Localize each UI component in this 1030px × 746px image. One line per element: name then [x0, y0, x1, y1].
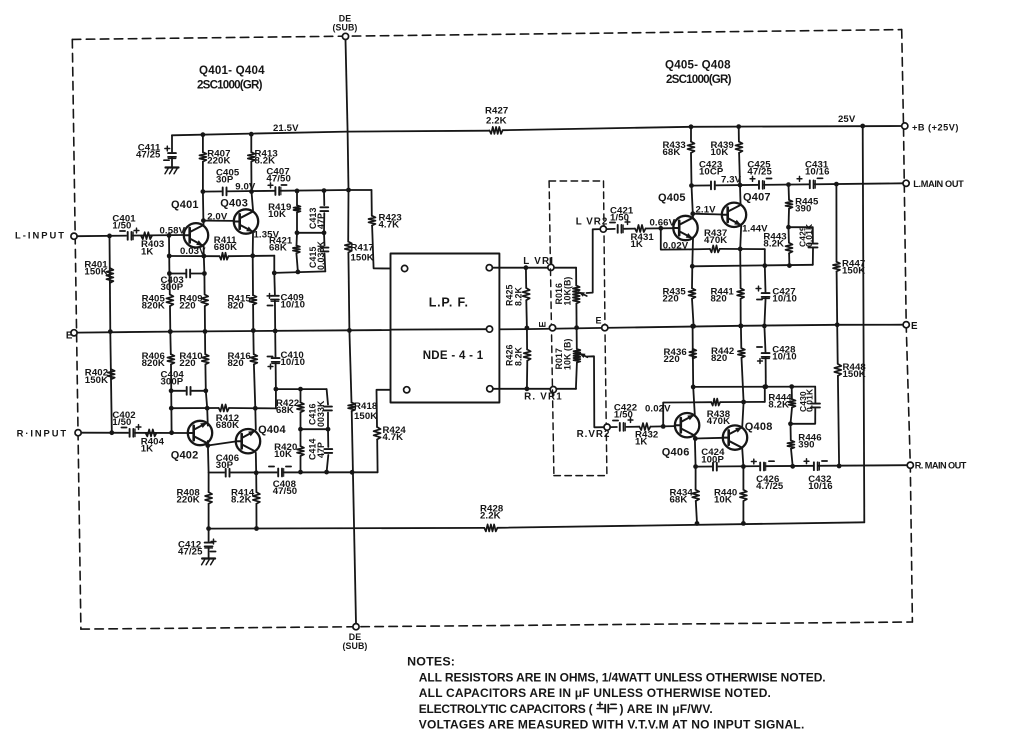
wire C414 to bus1' [327, 455, 329, 472]
junction R428 line/R440 [741, 521, 746, 526]
transistor Q408 [723, 425, 747, 449]
wire R438 line [690, 401, 711, 403]
capacitor C412 [204, 542, 214, 547]
junction L.MAIN/R445 [786, 182, 791, 187]
wire R419 to bus2 [296, 212, 298, 232]
svg-text:R·INPUT: R·INPUT [17, 428, 68, 439]
wire 0.03V line right [229, 255, 275, 258]
junction C428/387 line [763, 384, 768, 389]
resistor R436 [689, 349, 696, 359]
wire C404 line [171, 390, 206, 392]
svg-text:220: 220 [663, 294, 679, 305]
wire vA upper [109, 236, 112, 332]
wire R405 to E [169, 306, 171, 332]
svg-text:8.2K: 8.2K [514, 286, 524, 306]
wire DE(SUB) vertical upper [346, 40, 349, 242]
resistor R413 [248, 152, 255, 161]
junction bus1'/R420 [298, 470, 303, 475]
capacitor C422 [619, 422, 624, 432]
svg-text:E: E [66, 331, 73, 342]
wire +B feed down to R428 line [863, 126, 865, 522]
wire E to R416 [252, 331, 254, 355]
terminal E right [903, 322, 909, 328]
svg-text:68K: 68K [670, 495, 688, 506]
resistor R435 [689, 288, 696, 299]
resistor R408 [205, 492, 212, 504]
wire R423 to LPF input [372, 226, 401, 269]
wire R441 to E [740, 299, 742, 326]
svg-text:0.01K: 0.01K [804, 223, 814, 247]
svg-text:8.2K: 8.2K [255, 156, 276, 167]
svg-text:8.2K: 8.2K [763, 239, 784, 250]
junction bus2'/R420 [298, 427, 303, 432]
terminal LPF right mid [486, 326, 492, 332]
svg-text:0033K: 0033K [316, 400, 326, 427]
wire bus2 to R421 [296, 233, 299, 246]
wire 2.0V line Q401->Q403 base [203, 220, 234, 222]
junction R445/R443/C429 [786, 225, 791, 230]
dashed box around VR terminals [549, 180, 603, 182]
capacitor C403 [186, 269, 191, 279]
wire to Q402 emitter [206, 408, 209, 425]
svg-text:4.7K: 4.7K [383, 432, 404, 443]
junction vC/C404 [203, 388, 208, 393]
junction 0.02V/Q407 emitter [738, 247, 743, 252]
terminal on R VR1 line [550, 387, 556, 393]
svg-text:ALL CAPACITORS ARE IN μF UNLES: ALL CAPACITORS ARE IN μF UNLESS OTHERWIS… [419, 686, 771, 700]
svg-text:1K: 1K [141, 246, 153, 257]
svg-text:VOLTAGES ARE MEASURED WITH V.T: VOLTAGES ARE MEASURED WITH V.T.V.M AT NO… [419, 718, 805, 732]
capacitor C410 [271, 357, 281, 362]
resistor R438 [711, 399, 720, 406]
svg-text:30P: 30P [216, 175, 234, 186]
resistor R424 [374, 427, 381, 440]
resistor R405 [166, 295, 173, 307]
svg-text:2SC1000(GR): 2SC1000(GR) [666, 73, 732, 86]
wire E rail [77, 325, 903, 333]
wire bus1 9.0V line [203, 190, 372, 192]
junction vB/E rail [168, 329, 173, 334]
wire base junction up to R438 line [663, 402, 690, 426]
svg-text:47/50: 47/50 [273, 486, 298, 497]
wire to C412 [208, 529, 210, 542]
svg-text:Q404: Q404 [258, 424, 286, 436]
junction rail/+B feed [860, 124, 865, 129]
capacitor C432 [813, 461, 818, 471]
svg-text:10/16: 10/16 [808, 481, 833, 492]
wire emitter bypass line bottom [693, 386, 815, 388]
svg-text:) ARE IN μF/WV.: ) ARE IN μF/WV. [620, 702, 713, 716]
junction R408/R428 line/C412 [206, 526, 211, 531]
junction L VR1/R425 [524, 265, 529, 270]
wire to Q403 collector [252, 192, 254, 210]
wire R433 to L.MAIN line [690, 153, 693, 186]
resistor R433 [688, 142, 695, 153]
potentiometer R016 [573, 286, 580, 304]
svg-text:8.2K: 8.2K [231, 495, 252, 506]
resistor R411 [220, 253, 229, 260]
wire R444 to node [791, 408, 793, 424]
transistor Q405 [673, 216, 697, 240]
svg-text:150K: 150K [843, 369, 866, 380]
wire R424 to LPF input [377, 390, 404, 427]
wire bus1 to Q401 collector [202, 192, 205, 226]
wire 0.03V line left [169, 255, 219, 257]
wire R434 to R428 line [696, 501, 697, 523]
svg-text:10K: 10K [268, 209, 286, 220]
svg-text:300P: 300P [161, 282, 184, 293]
terminal E on dashed box right [602, 325, 608, 331]
wire R.MAIN OUT line [696, 465, 908, 466]
svg-text:8.2K: 8.2K [768, 400, 789, 411]
wire L.MAIN OUT line [692, 183, 904, 185]
wire R431 to Q405 base [646, 227, 674, 229]
resistor R420 [297, 446, 304, 456]
wire 266 line to C427 [764, 266, 767, 292]
wire bus2' [301, 428, 329, 430]
junction 266 line/R443 [787, 263, 792, 268]
svg-text:220: 220 [179, 358, 195, 369]
junction R VR1/R426 [525, 386, 530, 391]
junction vB/C404 [169, 388, 174, 393]
junction 387 line/R444 [789, 384, 794, 389]
wire Q404 collector to bus1'/R414 [255, 453, 258, 492]
svg-text:Q403: Q403 [220, 198, 248, 210]
junction vB/C403 [167, 271, 172, 276]
junction bus2/R419 [295, 230, 300, 235]
resistor R412 [219, 405, 229, 412]
wire E rail to R418 [349, 330, 351, 402]
capacitor C423 [710, 181, 715, 191]
capacitor C407 [275, 186, 280, 196]
resistor R409 [201, 295, 208, 307]
resistor R418 [348, 403, 355, 412]
wire Q403 emitter down [252, 233, 254, 256]
svg-text:(SUB): (SUB) [343, 641, 368, 651]
svg-text:R. VR1: R. VR1 [524, 392, 563, 403]
capacitor C402 [129, 428, 134, 438]
junction bus1/R417-DE [346, 188, 351, 193]
wire C430 to 387 line [814, 387, 816, 403]
wire bus1' corner up to R424 [376, 440, 378, 473]
svg-text:68K: 68K [269, 243, 287, 254]
svg-text:0.02V: 0.02V [663, 241, 689, 252]
wire Q406 emitter up to R436 [693, 349, 695, 415]
junction R442/E [739, 324, 744, 329]
svg-text:Q406: Q406 [662, 447, 690, 459]
resistor R407 [199, 152, 206, 161]
wire Q407 emitter down through 0.02V [740, 225, 741, 288]
wire R418 to bottom DE(SUB) [352, 411, 356, 623]
capacitor C416 [323, 406, 333, 411]
svg-text:0.66V: 0.66V [650, 217, 676, 228]
wire bus3 [274, 271, 325, 273]
svg-text:150K: 150K [351, 252, 374, 263]
wire R448 to R.MAIN [838, 376, 839, 466]
svg-text:10K: 10K [714, 495, 732, 506]
junction rail/R433 [689, 124, 694, 129]
svg-text:680K: 680K [216, 420, 239, 431]
wire R416 to R412 line [254, 364, 255, 408]
capacitor C430 [810, 403, 821, 408]
resistor R448 [834, 364, 841, 376]
terminal L.VR2 [600, 226, 606, 232]
svg-text:680K: 680K [214, 242, 237, 253]
svg-text:L.P. F.: L.P. F. [429, 296, 469, 310]
svg-text:47P: 47P [316, 442, 326, 458]
resistor R431 [635, 225, 646, 232]
wire R425 to E [525, 300, 528, 328]
svg-text:300P: 300P [161, 377, 184, 388]
wire C429 top branch [789, 227, 813, 243]
wire rail to R439 [738, 127, 740, 142]
wire Q402 collector to Q404 base [208, 441, 236, 445]
svg-text:2.0V: 2.0V [207, 212, 228, 223]
junction bus3/R421 [296, 270, 301, 275]
svg-text:10K: 10K [274, 449, 292, 460]
junction Q405 base/feedback [658, 226, 663, 231]
wire R439 to L.MAIN line [738, 153, 741, 185]
wire 387 line to R444 [791, 387, 793, 400]
wire C428 to 387 line [765, 358, 767, 387]
svg-text:150K: 150K [354, 411, 377, 422]
junction rail/R407 [201, 132, 206, 137]
wire R447 to E [836, 271, 839, 324]
wire R426 to R VR1 [526, 361, 528, 389]
svg-text:2.2K: 2.2K [480, 511, 501, 522]
capacitor C428 [761, 352, 771, 357]
terminal L-INPUT [71, 233, 77, 239]
wire E to R410 [204, 331, 206, 354]
junction vB/R412 line [169, 406, 174, 411]
junction Q401 collector / Q403 base tee [201, 218, 206, 223]
wire R406 to R-INPUT line [170, 364, 173, 432]
svg-text:0.01K: 0.01K [804, 388, 814, 412]
resistor R446 [787, 440, 794, 448]
wire C429 to 266 line [812, 248, 814, 265]
svg-text:68K: 68K [663, 147, 681, 158]
junction C409/E rail [273, 329, 278, 334]
junction vC/0.03V line [201, 254, 206, 259]
wire emitter bypass line [692, 265, 813, 267]
svg-text:10/10: 10/10 [281, 300, 306, 311]
svg-text:820: 820 [228, 358, 244, 369]
wire E to R017 [576, 328, 578, 349]
junction bus1'/R418-DE [350, 470, 355, 475]
wire L.VR2 to C421 [606, 228, 614, 230]
resistor R410 [202, 354, 209, 364]
transistor Q401 [184, 223, 208, 247]
wire C421 to R431 [624, 228, 635, 230]
wire Q406 collector to Q408 base [695, 437, 723, 440]
junction R428 line/R434 [695, 521, 700, 526]
capacitor C408 [277, 468, 282, 478]
svg-text:L VR2: L VR2 [576, 217, 609, 228]
wire C413 to bus2 [323, 213, 325, 233]
svg-text:4.7K: 4.7K [379, 220, 400, 231]
capacitor C411 [167, 152, 177, 157]
svg-text:150K: 150K [84, 267, 107, 278]
wire R417 to E rail [348, 253, 349, 331]
resistor R403 [141, 232, 152, 239]
terminal R.VR2 [604, 424, 610, 430]
capacitor C421 [617, 224, 622, 234]
wire 2.1V line Q405->Q407 base [693, 213, 722, 216]
wire Q408 collector down to R440 [742, 448, 743, 490]
wire vB to R405 [168, 235, 171, 294]
wire R435 to E [692, 299, 694, 326]
svg-text:E: E [911, 321, 918, 332]
terminal E left [71, 330, 77, 336]
capacitor C409 [270, 295, 280, 300]
svg-text:100P: 100P [701, 454, 724, 465]
transistor Q407 [722, 203, 746, 227]
wire rail to R413 [250, 134, 252, 152]
wire R415 to E [252, 305, 254, 331]
junction R-INPUT/vA [109, 430, 114, 435]
wire base junction down to 0.02V line [661, 228, 690, 249]
svg-text:L.MAIN OUT: L.MAIN OUT [913, 179, 964, 189]
junction R438 line/Q408 emitter [741, 400, 746, 405]
svg-text:2SC1000(GR): 2SC1000(GR) [197, 79, 263, 92]
svg-text:150K: 150K [842, 266, 865, 277]
junction vC/C403 [202, 271, 207, 276]
wire E to C410 [274, 331, 276, 357]
wire R017 to R VR1 [576, 363, 577, 389]
junction C427/E [762, 324, 767, 329]
junction R425/E [525, 326, 530, 331]
junction bus1/C413 [322, 188, 327, 193]
svg-text:R. MAIN OUT: R. MAIN OUT [915, 460, 967, 470]
wire R414 to R428 line [255, 504, 257, 529]
wire bus1 corner down to R423 [371, 190, 373, 216]
wire Q406 collector down to R434 [694, 436, 697, 490]
junction R.MAIN/Q406 collector [693, 464, 698, 469]
wire node to R446 [790, 424, 792, 441]
wire R409 to E [204, 306, 206, 331]
svg-text:R.VR2: R.VR2 [577, 429, 611, 440]
wire R017 wiper to R.VR2 [587, 356, 604, 427]
wire C409 to E [274, 301, 276, 331]
svg-text:25V: 25V [838, 114, 856, 125]
wire +B rail left [172, 131, 490, 136]
junction R.MAIN/Q408 collector [741, 464, 746, 469]
svg-text:9.0V: 9.0V [235, 181, 256, 192]
resistor R432 [639, 423, 650, 430]
svg-text:Q405: Q405 [658, 192, 686, 204]
wire corner to bus3 [273, 256, 275, 273]
svg-text:Q408: Q408 [745, 421, 773, 433]
terminal LPF right bottom [487, 386, 493, 392]
svg-text:220: 220 [179, 300, 195, 311]
svg-text:ELECTROLYTIC CAPACITORS (: ELECTROLYTIC CAPACITORS ( [419, 702, 593, 716]
wire R445 to node [788, 209, 791, 228]
resistor R428 [484, 524, 497, 531]
svg-text:30P: 30P [216, 460, 234, 471]
junction bus1 left end [201, 189, 206, 194]
resistor R447 [833, 262, 840, 272]
terminal R.MAIN OUT [907, 462, 913, 468]
wire L VR1 to R425 [525, 268, 527, 288]
transistor Q404 [236, 429, 260, 453]
resistor R404 [146, 429, 157, 436]
wire L.MAIN to R447 [835, 184, 837, 262]
junction R444/R446/C430 [788, 421, 793, 426]
junction Q406 emitter/387 line [691, 385, 696, 390]
junction L-INPUT/feedback node [167, 233, 172, 238]
wire rail to R407 [202, 135, 204, 153]
svg-text:390: 390 [795, 204, 811, 215]
transistor Q403 [234, 209, 258, 233]
wire R408 to R428 line [208, 504, 210, 529]
svg-text:4.7/25: 4.7/25 [756, 481, 784, 492]
wire L-INPUT line [77, 235, 184, 236]
resistor R401 [106, 268, 113, 283]
terminal E on dashed box left [549, 325, 555, 331]
resistor R426 [524, 350, 531, 361]
junction bus3'/R422 [298, 387, 303, 392]
ground below C412 [202, 557, 215, 559]
svg-text:(SUB): (SUB) [333, 23, 358, 33]
svg-text:0.033K: 0.033K [316, 240, 326, 270]
resistor R440 [740, 490, 747, 501]
svg-text:+B (+25V): +B (+25V) [912, 122, 959, 132]
wire E to R426 [526, 328, 528, 350]
wire R410 down to R412 line [205, 364, 207, 408]
junction R412 line/Q404 emitter [253, 406, 258, 411]
junction Q406 base/feedback [661, 424, 666, 429]
wire R-INPUT line [81, 432, 188, 434]
svg-text:1K: 1K [631, 239, 643, 250]
svg-text:10K: 10K [711, 147, 729, 158]
junction R441/E [738, 324, 743, 329]
junction bus1'/C414 [324, 470, 329, 475]
wire L.MAIN to R445 [788, 185, 791, 200]
svg-text:L-INPUT: L-INPUT [15, 230, 66, 241]
wire to Q404 emitter [254, 408, 257, 429]
wire Q405 emitter down to R435 [692, 238, 693, 288]
svg-text:10/10: 10/10 [281, 357, 306, 368]
resistor R402 [108, 369, 115, 379]
svg-text:1K: 1K [635, 437, 647, 448]
svg-text:Q407: Q407 [743, 192, 771, 204]
svg-text:220: 220 [664, 354, 680, 365]
svg-text:21.5V: 21.5V [273, 123, 299, 134]
svg-text:47P: 47P [316, 213, 326, 229]
svg-text:1/50: 1/50 [112, 417, 131, 428]
junction bus3'/C410 [274, 387, 279, 392]
svg-text:10K(B): 10K(B) [563, 277, 573, 306]
wire L VR1 to R016 [575, 268, 577, 286]
junction R448/R.MAIN [837, 464, 842, 469]
svg-text:47/25: 47/25 [747, 167, 772, 178]
wire L VR1 line [492, 267, 576, 269]
svg-text:470K: 470K [707, 416, 730, 427]
wire to R415 [252, 256, 254, 295]
svg-text:NDE - 4 - 1: NDE - 4 - 1 [423, 350, 484, 362]
wire to Q407 collector [739, 185, 742, 203]
capacitor C429 [808, 243, 819, 248]
svg-text:ALL RESISTORS ARE IN OHMS, 1/4: ALL RESISTORS ARE IN OHMS, 1/4WATT UNLES… [419, 670, 826, 684]
svg-text:10/16: 10/16 [805, 167, 830, 178]
junction R415/E rail [251, 328, 256, 333]
resistor R427 [490, 127, 503, 134]
wire bus1' line [209, 471, 378, 473]
resistor R416 [250, 354, 257, 364]
svg-text:Q402: Q402 [171, 450, 199, 462]
junction R436/E [690, 324, 695, 329]
capacitor C405 [222, 187, 227, 197]
